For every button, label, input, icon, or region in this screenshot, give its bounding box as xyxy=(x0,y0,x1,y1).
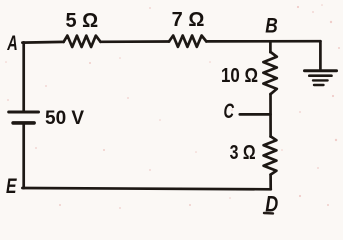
svg-text:50 V: 50 V xyxy=(45,108,84,129)
resistor R3 10-ohm zigzag xyxy=(263,52,276,94)
svg-text:B: B xyxy=(265,15,278,38)
battery BT1 long plate (+) xyxy=(9,111,39,114)
svg-text:A: A xyxy=(7,32,18,55)
svg-text:E: E xyxy=(6,175,17,198)
wire: top segment R1 to R2 xyxy=(101,40,170,43)
svg-text:7 Ω: 7 Ω xyxy=(172,9,205,31)
svg-text:5 Ω: 5 Ω xyxy=(65,10,98,32)
wire: battery bottom plate down to E corner xyxy=(22,125,25,189)
wire: A corner down to battery top plate xyxy=(22,42,25,110)
wire: bottom E to D xyxy=(22,188,270,189)
ground stem wire xyxy=(319,41,322,70)
svg-text:C: C xyxy=(224,100,235,123)
ground symbol bars xyxy=(305,71,337,85)
resistor R4 3-ohm zigzag xyxy=(264,136,277,174)
resistor R2 7-ohm zigzag xyxy=(169,36,206,47)
wire: node C stub xyxy=(240,113,271,116)
svg-text:3 Ω: 3 Ω xyxy=(230,142,256,164)
smudge mark under D xyxy=(264,212,273,215)
resistor R1 5-ohm zigzag xyxy=(64,36,101,47)
wire: R3 to R4 through node C junction xyxy=(269,94,272,137)
battery BT1 short plate (-) xyxy=(13,121,34,125)
wire: node B down to R3 xyxy=(269,41,272,52)
wire: R4 down to node D corner xyxy=(269,175,272,190)
wire: top segment A to R1 xyxy=(22,41,63,44)
svg-text:10 Ω: 10 Ω xyxy=(221,65,258,87)
wire: top segment R2 through node B to ground corner xyxy=(206,40,320,43)
